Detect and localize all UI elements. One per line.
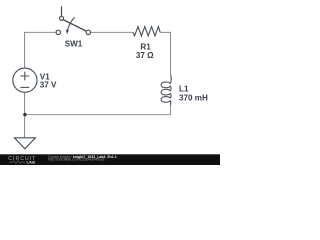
wire left vertical (top corner down to V1 top): [24, 32, 26, 68]
SW1 right terminal circle: [86, 30, 90, 34]
svg-text:SW1: SW1: [65, 40, 83, 49]
wire SW1 right terminal to R1: [91, 31, 134, 33]
switch SW1: [56, 6, 90, 34]
wire V1 bottom to ground: [24, 92, 26, 138]
wire top-left horizontal (node to SW1 left terminal): [24, 31, 56, 33]
SW1 bar: [63, 20, 86, 31]
svg-text:37 Ω: 37 Ω: [136, 51, 154, 60]
footer bar: [0, 154, 220, 165]
wire bottom horizontal: [25, 114, 171, 116]
voltage source V1: [13, 68, 37, 92]
svg-text:LAB: LAB: [27, 160, 36, 164]
resistor R1: [133, 27, 160, 36]
wire L1 bottom to bottom-right corner: [170, 104, 172, 115]
SW1 actuator arrow: [67, 17, 74, 30]
V1 minus sign: [20, 86, 29, 88]
inductor L1: [161, 75, 171, 105]
svg-text:L1: L1: [179, 84, 189, 93]
footer logo CircuitLab: [8, 156, 36, 165]
V1 plus sign: [20, 72, 29, 81]
SW1 top terminal circle: [60, 16, 64, 20]
footer credit text: [48, 155, 116, 162]
wire R1 to top-right corner: [160, 31, 170, 33]
svg-text:37 V: 37 V: [40, 81, 57, 90]
svg-text:370 mH: 370 mH: [179, 94, 208, 103]
SW1 top terminal stub: [61, 6, 63, 16]
ground: [14, 138, 35, 149]
SW1 left terminal circle: [56, 30, 60, 34]
svg-text:http://circuitlab.com/c/2ab4ut: http://circuitlab.com/c/2ab4utv45xyz: [48, 158, 104, 162]
junction node: [23, 113, 26, 116]
wire right vertical down to L1 top: [170, 32, 172, 75]
